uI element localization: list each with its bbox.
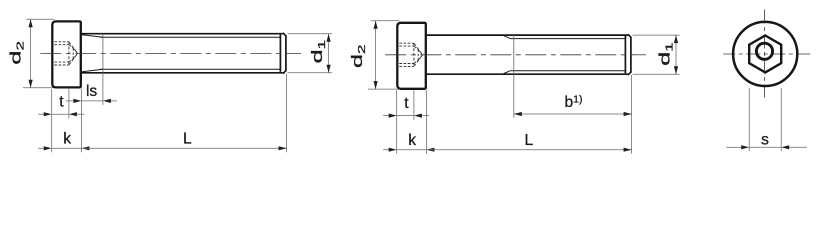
arrowhead d1 down (view 2) <box>674 66 678 74</box>
svg-text:s: s <box>761 131 769 148</box>
arrowhead t left (view 1) <box>44 112 52 116</box>
svg-text:k: k <box>63 131 71 148</box>
hidden socket wall top inner (view 1) <box>54 44 69 46</box>
svg-text:L: L <box>183 131 192 148</box>
screw side view 1: fully threaded DIN 912 <box>8 19 333 152</box>
dimension line L (view 1) <box>81 147 286 149</box>
arrowhead L right (view 1) <box>279 146 287 150</box>
extension line d1 top (view 1) <box>288 33 333 35</box>
arrowhead ls right (view 1) <box>103 99 111 103</box>
dimension line ls right tail (view 1) <box>111 100 117 102</box>
shank and thread major bottom (view 2) <box>427 73 628 75</box>
arrowhead t right (view 1) <box>69 112 77 116</box>
dimension line s right tail (end view) <box>789 146 807 148</box>
svg-text:t: t <box>59 93 64 110</box>
thread major diameter bottom (view 1) <box>82 72 283 74</box>
extension line d2 top (view 1) <box>26 18 54 20</box>
svg-text:t: t <box>404 95 409 112</box>
screw head outline (view 1) <box>52 21 81 87</box>
arrowhead d1 up (view 2) <box>674 35 678 43</box>
hidden inner cone upper (view 2) <box>418 50 422 55</box>
dimension line d2 (view 1) <box>30 19 32 87</box>
point chamfer line (view 2) <box>624 36 626 73</box>
hidden socket wall top inner (view 2) <box>399 45 414 47</box>
extension line thread run-out (view 1) <box>102 73 104 105</box>
screw end view with hex socket <box>723 10 811 152</box>
dimension line s left tail (end view) <box>726 146 741 148</box>
dimension line k (view 1) <box>52 147 82 149</box>
thread length boundary line (view 2) <box>513 35 515 74</box>
hidden socket wall top outer (view 2) <box>399 42 414 44</box>
dimension line L (view 2) <box>426 149 631 151</box>
hidden socket wall bottom outer (view 1) <box>54 64 69 66</box>
extension line d1 bottom (view 1) <box>288 72 333 74</box>
extension line thread length left (view 2) <box>513 74 515 118</box>
thread minor diameter top (view 2) <box>510 38 625 40</box>
arrowhead d1 up (view 1) <box>327 34 331 42</box>
hidden socket wall bottom inner (view 2) <box>399 63 414 65</box>
arrowhead L left (view 1) <box>81 146 89 150</box>
thread start chamfer lower (view 2) <box>504 71 511 74</box>
hidden inner cone lower (view 2) <box>418 55 422 60</box>
hidden hex edge upper (view 1) <box>69 45 73 49</box>
extension line s left (end view) <box>748 88 750 151</box>
hidden socket wall bottom inner (view 1) <box>54 61 69 63</box>
dimension line b (view 2) <box>514 113 632 115</box>
extension line socket depth (view 2) <box>413 90 415 120</box>
end face with chamfer (view 2) <box>628 34 631 75</box>
dimension line t left tail (view 2) <box>383 115 389 117</box>
hidden hex edge lower (view 2) <box>414 60 418 64</box>
extension line s right (end view) <box>780 88 782 151</box>
dimension line k (view 2) <box>397 149 427 151</box>
extension line screw end (view 2) <box>631 75 633 154</box>
dimension line d1 (view 1) <box>328 34 330 73</box>
extension line d1 top (view 2) <box>633 34 680 36</box>
dimension line d2 (view 2) <box>375 21 377 89</box>
hidden socket wall bottom outer (view 2) <box>399 65 414 67</box>
extension line d2 bottom (view 2) <box>368 88 399 90</box>
svg-text:L: L <box>525 132 534 149</box>
full thread boundary line (view 1) <box>102 34 104 73</box>
dimension line k left tail (view 1) <box>38 147 44 149</box>
extension line d2 top (view 2) <box>371 20 399 22</box>
dimension line s (end view) <box>749 146 781 148</box>
arrowhead L left (view 2) <box>426 148 434 152</box>
thread minor diameter bottom (view 1) <box>100 68 281 70</box>
hidden inner cone upper (view 1) <box>73 48 77 53</box>
head outer circle (end view) <box>733 22 797 86</box>
vertical centerline (end view) <box>763 10 765 98</box>
hidden hex corner line (view 1) <box>72 48 74 58</box>
point chamfer line (view 1) <box>279 35 281 72</box>
centerline (view 1) <box>40 52 301 54</box>
thread run-out lower (view 1) <box>82 69 103 72</box>
screw head outline (view 2) <box>397 23 426 89</box>
extension line head right face (view 2) <box>425 90 427 154</box>
horizontal centerline (end view) <box>723 53 811 55</box>
extension line head left face (view 1) <box>51 89 53 153</box>
arrowhead k left (view 2) <box>389 148 397 152</box>
dimension line k left tail (view 2) <box>383 149 389 151</box>
extension line head left face (view 2) <box>396 90 398 154</box>
screw side view 2: partially threaded DIN 912 <box>349 21 679 154</box>
svg-text:k: k <box>408 132 416 149</box>
arrowhead k left (view 1) <box>44 146 52 150</box>
socket cone circle (end view) <box>756 43 772 59</box>
dimension line ls left tail (view 1) <box>66 100 73 102</box>
hidden socket cone upper (view 2) <box>414 43 423 55</box>
hidden socket cone upper (view 1) <box>69 42 78 54</box>
dimension line ls (view 1) <box>81 100 103 102</box>
arrowhead d2 down (view 1) <box>29 80 33 88</box>
dimension line t (view 2) <box>397 115 414 117</box>
hidden socket depth line (view 2) <box>413 43 415 66</box>
dimension line d1 (view 2) <box>675 35 677 74</box>
arrowhead d1 down (view 1) <box>327 65 331 73</box>
hidden socket wall top outer (view 1) <box>54 41 69 43</box>
extension line d1 bottom (view 2) <box>633 73 680 75</box>
thread start chamfer upper (view 2) <box>504 36 511 39</box>
arrowhead b left (view 2) <box>514 112 522 116</box>
arrowhead s left (end view) <box>741 145 749 149</box>
dimension line t (view 1) <box>52 113 69 115</box>
extension line socket depth (view 1) <box>68 89 70 119</box>
extension line screw end (view 1) <box>286 74 288 153</box>
dimension line t right tail (view 1) <box>77 113 84 115</box>
hidden hex corner line (view 2) <box>417 50 419 60</box>
hidden socket cone lower (view 2) <box>414 55 423 67</box>
thread major diameter top (view 1) <box>82 33 283 35</box>
thread run-out upper (view 1) <box>82 35 103 38</box>
extension line head right face (view 1) <box>80 89 82 153</box>
hidden inner cone lower (view 1) <box>73 53 77 58</box>
thread minor diameter top (view 1) <box>100 36 281 38</box>
end face with chamfer (view 1) <box>283 33 286 74</box>
hidden socket cone lower (view 1) <box>69 53 78 65</box>
arrowhead d2 up (view 1) <box>29 19 33 27</box>
arrowhead d2 down (view 2) <box>374 81 378 89</box>
shank and thread major top (view 2) <box>427 34 628 36</box>
hidden hex edge lower (view 1) <box>69 59 73 63</box>
arrowhead t right (view 2) <box>414 114 422 118</box>
arrowhead s right (end view) <box>781 145 789 149</box>
extension line d2 bottom (view 1) <box>23 87 54 89</box>
hex socket (end view) <box>749 35 781 72</box>
thread minor diameter bottom (view 2) <box>510 70 625 72</box>
svg-text:ls: ls <box>86 83 97 100</box>
centerline (view 2) <box>385 54 646 56</box>
hidden hex edge upper (view 2) <box>414 46 418 50</box>
arrowhead t left (view 2) <box>389 114 397 118</box>
dimension line t left tail (view 1) <box>38 113 44 115</box>
arrowhead b right (view 2) <box>624 112 632 116</box>
dimension line t right tail (view 2) <box>422 115 429 117</box>
arrowhead ls left (view 1) <box>73 99 81 103</box>
hidden socket depth line (view 1) <box>68 42 70 65</box>
arrowhead d2 up (view 2) <box>374 21 378 29</box>
arrowhead L right (view 2) <box>624 148 632 152</box>
